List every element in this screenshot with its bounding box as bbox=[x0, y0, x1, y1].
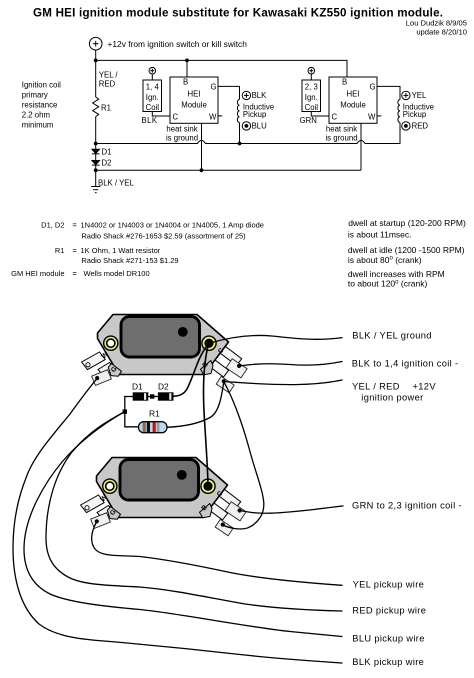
W2 stub bbox=[377, 115, 381, 117]
module1 heatsink ground wire bbox=[201, 123, 203, 170]
W1 stub bbox=[218, 115, 222, 117]
svg-text:heat sink: heat sink bbox=[166, 125, 197, 134]
junction dot B1 bus bbox=[185, 59, 189, 63]
svg-text:HEI: HEI bbox=[188, 90, 201, 99]
svg-text:Lou Dudzik 8/9/05: Lou Dudzik 8/9/05 bbox=[406, 19, 467, 28]
svg-text:update 8/20/10: update 8/20/10 bbox=[416, 28, 467, 37]
svg-text:Ign.: Ign. bbox=[146, 93, 159, 102]
ignition coil 1,4 box bbox=[143, 80, 162, 112]
wire coil1 to C pin bbox=[152, 112, 170, 117]
svg-text:B: B bbox=[342, 77, 347, 86]
svg-text:Module: Module bbox=[340, 101, 366, 110]
wire R1 to node line1 bbox=[95, 117, 97, 144]
pickup2 RED terminal symbol bbox=[402, 122, 410, 130]
svg-text:G: G bbox=[370, 82, 376, 91]
svg-text:B: B bbox=[183, 77, 188, 86]
wire C2 receptacle to GRN label bbox=[240, 506, 343, 513]
svg-text:is about 11msec.: is about 11msec. bbox=[348, 229, 412, 239]
resistor R1 (schematic zigzag) bbox=[93, 97, 99, 117]
svg-text:Coil: Coil bbox=[305, 103, 319, 112]
pickup2 labels bbox=[403, 91, 434, 130]
svg-text:is ground: is ground bbox=[166, 133, 198, 142]
svg-text:primary: primary bbox=[22, 90, 48, 99]
HEI module 2 box bbox=[329, 77, 377, 123]
resistor R1 (photo) bbox=[139, 422, 168, 433]
dwell note startup bbox=[348, 218, 466, 240]
svg-text:ignition power: ignition power bbox=[361, 393, 423, 403]
svg-text:R1: R1 bbox=[55, 246, 65, 255]
svg-text:D1: D1 bbox=[132, 382, 143, 392]
svg-text:BLK / YEL: BLK / YEL bbox=[98, 179, 134, 188]
svg-text:dwell increases with RPM: dwell increases with RPM bbox=[348, 269, 445, 279]
svg-text:Ignition coil: Ignition coil bbox=[22, 80, 61, 89]
heat sink note module1 bbox=[166, 125, 198, 143]
junction dot line2 left bbox=[94, 168, 98, 172]
svg-text:resistance: resistance bbox=[22, 101, 58, 110]
svg-text:Ign.: Ign. bbox=[305, 93, 318, 102]
ignition coil note bbox=[22, 80, 61, 129]
svg-text:Wells model DR100: Wells model DR100 bbox=[84, 269, 150, 278]
svg-text:=: = bbox=[72, 246, 77, 255]
svg-text:is about 80o (crank): is about 80o (crank) bbox=[348, 255, 422, 265]
svg-text:Radio Shack #276-1653 $2.59: Radio Shack #276-1653 $2.59 (assortment … bbox=[81, 232, 246, 241]
module2 heatsink ground wire bbox=[360, 123, 362, 170]
svg-text:=: = bbox=[72, 221, 77, 230]
parts list row D1,D2 bbox=[41, 221, 264, 230]
svg-text:C: C bbox=[173, 112, 179, 121]
D1 D2 link wire bbox=[125, 397, 139, 427]
pickup1 BLK terminal symbol bbox=[242, 91, 250, 99]
svg-text:HEI: HEI bbox=[347, 90, 360, 99]
svg-text:D1, D2: D1, D2 bbox=[41, 221, 64, 230]
BLK pickup wire curve bbox=[13, 379, 342, 664]
svg-text:Pickup: Pickup bbox=[243, 110, 267, 119]
C2 receptacle wire dot bbox=[238, 508, 242, 512]
wire node to diode D1 bbox=[95, 144, 97, 150]
diode D2 (photo) bbox=[158, 393, 173, 401]
D1-D2 junction dot bbox=[150, 394, 154, 398]
RED pickup wire curve bbox=[46, 412, 342, 611]
svg-text:YEL / RED+12V: YEL / RED+12V bbox=[352, 381, 436, 391]
svg-text:to about 120o (crank): to about 120o (crank) bbox=[348, 279, 428, 289]
svg-text:D2: D2 bbox=[158, 382, 169, 392]
wire pickup1 to line1 bbox=[239, 123, 241, 144]
heat sink note module2 bbox=[325, 125, 357, 143]
svg-text:dwell at idle (1200 -1500 RPM): dwell at idle (1200 -1500 RPM) bbox=[348, 245, 465, 255]
svg-text:YEL pickup wire: YEL pickup wire bbox=[353, 579, 425, 589]
svg-text:=: = bbox=[72, 269, 77, 278]
svg-text:GM HEI ignition module substit: GM HEI ignition module substitute for Ka… bbox=[33, 7, 443, 20]
coil1 +12v terminal circle bbox=[149, 67, 156, 80]
left vertical wire to R1 bbox=[95, 60, 97, 97]
svg-text:BLK: BLK bbox=[252, 91, 268, 100]
G2 receptacle wire dot bbox=[95, 519, 99, 523]
svg-text:BLU pickup wire: BLU pickup wire bbox=[352, 634, 424, 644]
svg-text:2, 3: 2, 3 bbox=[305, 82, 318, 91]
svg-text:Pickup: Pickup bbox=[403, 110, 427, 119]
B2 receptacle wire dot bbox=[221, 523, 225, 527]
ignition coil 2,3 box bbox=[302, 80, 321, 112]
svg-text:RED pickup wire: RED pickup wire bbox=[352, 606, 426, 616]
svg-text:minimum: minimum bbox=[22, 121, 54, 130]
svg-text:RED: RED bbox=[412, 121, 429, 130]
svg-text:1K Ohm, 1 Watt resistor: 1K Ohm, 1 Watt resistor bbox=[81, 246, 161, 255]
top +12v bus wire bbox=[96, 60, 347, 77]
wire from source down to top bus bbox=[95, 50, 97, 60]
bolt to bolt ground chain wire bbox=[203, 344, 208, 485]
coil2 box text bbox=[305, 82, 319, 112]
svg-text:1, 4: 1, 4 bbox=[146, 82, 160, 91]
wire B1 to bus bbox=[186, 60, 188, 77]
svg-text:W: W bbox=[209, 112, 217, 121]
dwell note idle bbox=[348, 245, 465, 265]
svg-text:R1: R1 bbox=[149, 409, 160, 419]
svg-text:W: W bbox=[368, 112, 376, 121]
diode D1 (photo) bbox=[133, 393, 148, 401]
HEI module photo 1 bbox=[82, 315, 248, 393]
pickup1 BLU terminal symbol bbox=[242, 122, 250, 130]
ground symbol bbox=[91, 170, 100, 192]
coil1 box text bbox=[146, 82, 160, 112]
dwell note rpm bbox=[348, 269, 445, 289]
svg-text:R1: R1 bbox=[101, 104, 111, 113]
+12v source circle bbox=[89, 37, 102, 50]
svg-text:BLU: BLU bbox=[252, 121, 268, 130]
svg-text:GM HEI module: GM HEI module bbox=[11, 269, 64, 278]
svg-text:C: C bbox=[332, 112, 338, 121]
svg-text:Radio Shack #271-153 $1.29: Radio Shack #271-153 $1.29 bbox=[81, 256, 178, 265]
svg-text:GRN: GRN bbox=[300, 116, 317, 125]
svg-text:RED: RED bbox=[99, 80, 116, 89]
svg-text:BLK to 1,4 ignition coil -: BLK to 1,4 ignition coil - bbox=[352, 359, 459, 369]
B1 receptacle wire dot bbox=[222, 379, 226, 383]
wire B1 receptacle +12V label bbox=[224, 380, 342, 385]
inductive pickup 2 coil bbox=[398, 100, 400, 123]
bus line1 (pickup return) with hops over heatsink wires bbox=[96, 123, 400, 144]
svg-text:1N4002 or 1N4003 or 1N4004 or: 1N4002 or 1N4003 or 1N4004 or 1N4005, 1 … bbox=[81, 221, 264, 230]
wire G2 to pickup2 bbox=[377, 86, 400, 99]
HEI module 1 box bbox=[170, 77, 218, 123]
svg-text:heat sink: heat sink bbox=[326, 125, 357, 134]
svg-text:Module: Module bbox=[181, 101, 207, 110]
svg-text:YEL /: YEL / bbox=[99, 71, 119, 80]
svg-text:YEL: YEL bbox=[412, 91, 427, 100]
pickup2 YEL terminal symbol bbox=[402, 91, 410, 99]
svg-text:D1: D1 bbox=[102, 148, 112, 157]
svg-text:D2: D2 bbox=[102, 159, 112, 168]
svg-text:GRN to 2,3 ignition coil -: GRN to 2,3 ignition coil - bbox=[352, 501, 462, 511]
coil2 +12v terminal circle bbox=[308, 67, 315, 80]
module1 box text bbox=[173, 77, 218, 121]
wire coil2 to C pin bbox=[311, 112, 329, 117]
parts list row GM HEI module bbox=[11, 269, 150, 278]
D1/R1 node dot bbox=[123, 409, 127, 413]
G1 receptacle wire dot bbox=[95, 376, 99, 380]
svg-text:+12v from ignition switch or k: +12v from ignition switch or kill switch bbox=[108, 39, 248, 49]
svg-text:BLK / YEL ground: BLK / YEL ground bbox=[352, 331, 432, 341]
HEI module photo 2 bbox=[81, 458, 247, 536]
junction dot top bus left bbox=[94, 59, 98, 63]
R1 right lead wire bbox=[167, 382, 224, 427]
wire G1 to pickup1 bbox=[218, 86, 240, 99]
C1 receptacle wire dot bbox=[237, 364, 241, 368]
wire C1 receptacle to coil label bbox=[239, 362, 342, 367]
svg-text:BLK: BLK bbox=[142, 116, 158, 125]
diode D1 (schematic) bbox=[92, 149, 100, 160]
bus line2 (ground) bbox=[96, 169, 361, 171]
svg-text:Coil: Coil bbox=[146, 103, 160, 112]
ground wire to label bbox=[209, 335, 343, 343]
D2 to bolt wire bbox=[173, 346, 208, 397]
module2 box text bbox=[332, 77, 377, 121]
svg-text:is ground: is ground bbox=[325, 133, 357, 142]
parts list row R1 bbox=[55, 246, 161, 255]
svg-text:2.2 ohm: 2.2 ohm bbox=[22, 111, 50, 120]
YEL pickup wire curve bbox=[92, 522, 342, 586]
svg-text:BLK pickup wire: BLK pickup wire bbox=[352, 657, 424, 667]
svg-text:G: G bbox=[211, 82, 217, 91]
BLU pickup wire curve bbox=[24, 412, 342, 637]
diode D2 (schematic) bbox=[92, 161, 100, 171]
junction dot line1 left bbox=[94, 142, 98, 146]
junction dot heatsink1 line2 bbox=[200, 168, 204, 172]
inductive pickup 1 coil bbox=[237, 100, 239, 123]
svg-text:dwell at startup (120-200 RPM): dwell at startup (120-200 RPM) bbox=[348, 218, 466, 228]
B1 to B2 daisy chain wire bbox=[223, 382, 264, 529]
pickup1 labels bbox=[243, 91, 274, 130]
wire between D1 and D2 bbox=[148, 396, 158, 398]
junction dot pickup1 line1 bbox=[238, 142, 242, 146]
